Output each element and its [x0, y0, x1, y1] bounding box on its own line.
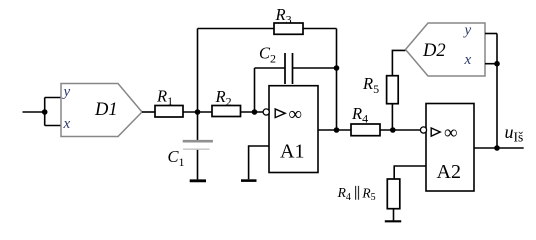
capacitor C2 plates: [285, 53, 293, 84]
op-amp A2 box: [426, 104, 474, 192]
wire D2 x stub: [485, 63, 497, 65]
node A1 output junction: [334, 127, 340, 133]
resistor R5: [387, 76, 399, 104]
svg-text:R5: R5: [361, 186, 375, 204]
op-amp A1 triangle symbol: [275, 109, 285, 118]
node output junction: [494, 145, 500, 151]
svg-text:R4: R4: [337, 185, 351, 203]
symbol parallel bars: [356, 186, 359, 200]
wire D1 output to R1: [142, 111, 155, 113]
svg-text:D1: D1: [94, 100, 118, 120]
node N1 junction: [195, 109, 201, 115]
node R5 tap junction: [390, 127, 396, 133]
ground C1: [190, 179, 206, 182]
wire C1 to ground: [197, 150, 199, 180]
wire y stub to D1: [45, 97, 62, 99]
resistor R1: [155, 106, 183, 118]
resistor R4parR5: [387, 179, 400, 209]
wire R1 to R2: [183, 111, 212, 113]
svg-text:x: x: [464, 52, 472, 68]
wire A1 noninverting input: [249, 146, 269, 179]
svg-text:A2: A2: [437, 161, 461, 183]
svg-text:R5: R5: [362, 74, 379, 96]
resistor R4: [351, 124, 380, 136]
wire R4 to A2 input: [380, 129, 420, 131]
wire input lead: [23, 111, 45, 113]
svg-text:y: y: [463, 22, 472, 38]
wire R2 to A1 input: [241, 111, 264, 113]
svg-text:R1: R1: [156, 86, 173, 108]
wire top feedback left segment: [198, 28, 275, 30]
op-amp A1 inverting input circle: [263, 109, 269, 115]
svg-text:R2: R2: [215, 87, 232, 109]
wire C2 drop to A1 input: [254, 68, 256, 112]
multiplier D1 body: [61, 84, 142, 137]
svg-text:y: y: [62, 84, 71, 100]
wire A2 noninverting input: [394, 166, 426, 179]
op-amp A1 box: [269, 86, 318, 173]
wire x stub to D1: [45, 125, 62, 127]
resistor R3: [274, 23, 303, 34]
wire A1 output: [318, 129, 351, 131]
svg-text:R4: R4: [351, 104, 368, 126]
svg-text:∞: ∞: [444, 123, 458, 144]
wire C2 right lead: [293, 67, 337, 69]
wire C2 left lead: [255, 67, 286, 69]
wire input split vertical: [44, 98, 46, 126]
resistor R2: [212, 106, 241, 117]
ground A1 input: [241, 179, 257, 182]
wire R4parR5 to ground: [393, 209, 395, 221]
svg-text:C1: C1: [168, 147, 185, 169]
node D2 x junction: [494, 61, 500, 67]
svg-text:x: x: [63, 116, 71, 132]
svg-text:C2: C2: [259, 44, 276, 66]
wire A2 output: [474, 147, 524, 149]
capacitor C1 bottom plate: [183, 148, 210, 150]
wire R5 bottom lead: [391, 104, 393, 130]
op-amp A2 triangle symbol: [431, 128, 440, 136]
wire feedback vertical from N1 down to C1: [197, 29, 199, 141]
node C2 feedback junction: [334, 65, 340, 71]
op-amp A2 inverting input circle: [420, 127, 426, 133]
node input junction: [42, 109, 48, 115]
capacitor C1 top plate: [183, 140, 213, 143]
svg-text:A1: A1: [280, 141, 304, 163]
svg-text:∞: ∞: [289, 104, 303, 125]
svg-text:D2: D2: [422, 41, 446, 61]
wire D2 y stub: [485, 33, 497, 35]
svg-text:R3: R3: [275, 5, 292, 27]
wire D2 sense vertical to output: [496, 34, 498, 149]
ground R4parR5: [385, 220, 401, 222]
wire top feedback right segment: [303, 28, 337, 30]
multiplier D2 body: [406, 23, 486, 76]
wire R5 top lead to D2 point: [392, 50, 405, 75]
node A1 inverting input junction: [252, 109, 258, 115]
wire feedback vertical to A1 output: [336, 29, 338, 131]
svg-text:uIš: uIš: [505, 122, 524, 144]
